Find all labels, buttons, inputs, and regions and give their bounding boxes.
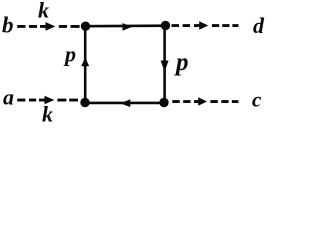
svg-text:k: k — [38, 0, 49, 23]
svg-text:k: k — [42, 102, 53, 127]
svg-text:p: p — [174, 49, 189, 76]
svg-text:d: d — [253, 13, 265, 38]
svg-text:c: c — [252, 88, 262, 112]
svg-text:a: a — [3, 85, 14, 110]
svg-text:b: b — [2, 13, 14, 38]
svg-text:p: p — [63, 42, 76, 67]
